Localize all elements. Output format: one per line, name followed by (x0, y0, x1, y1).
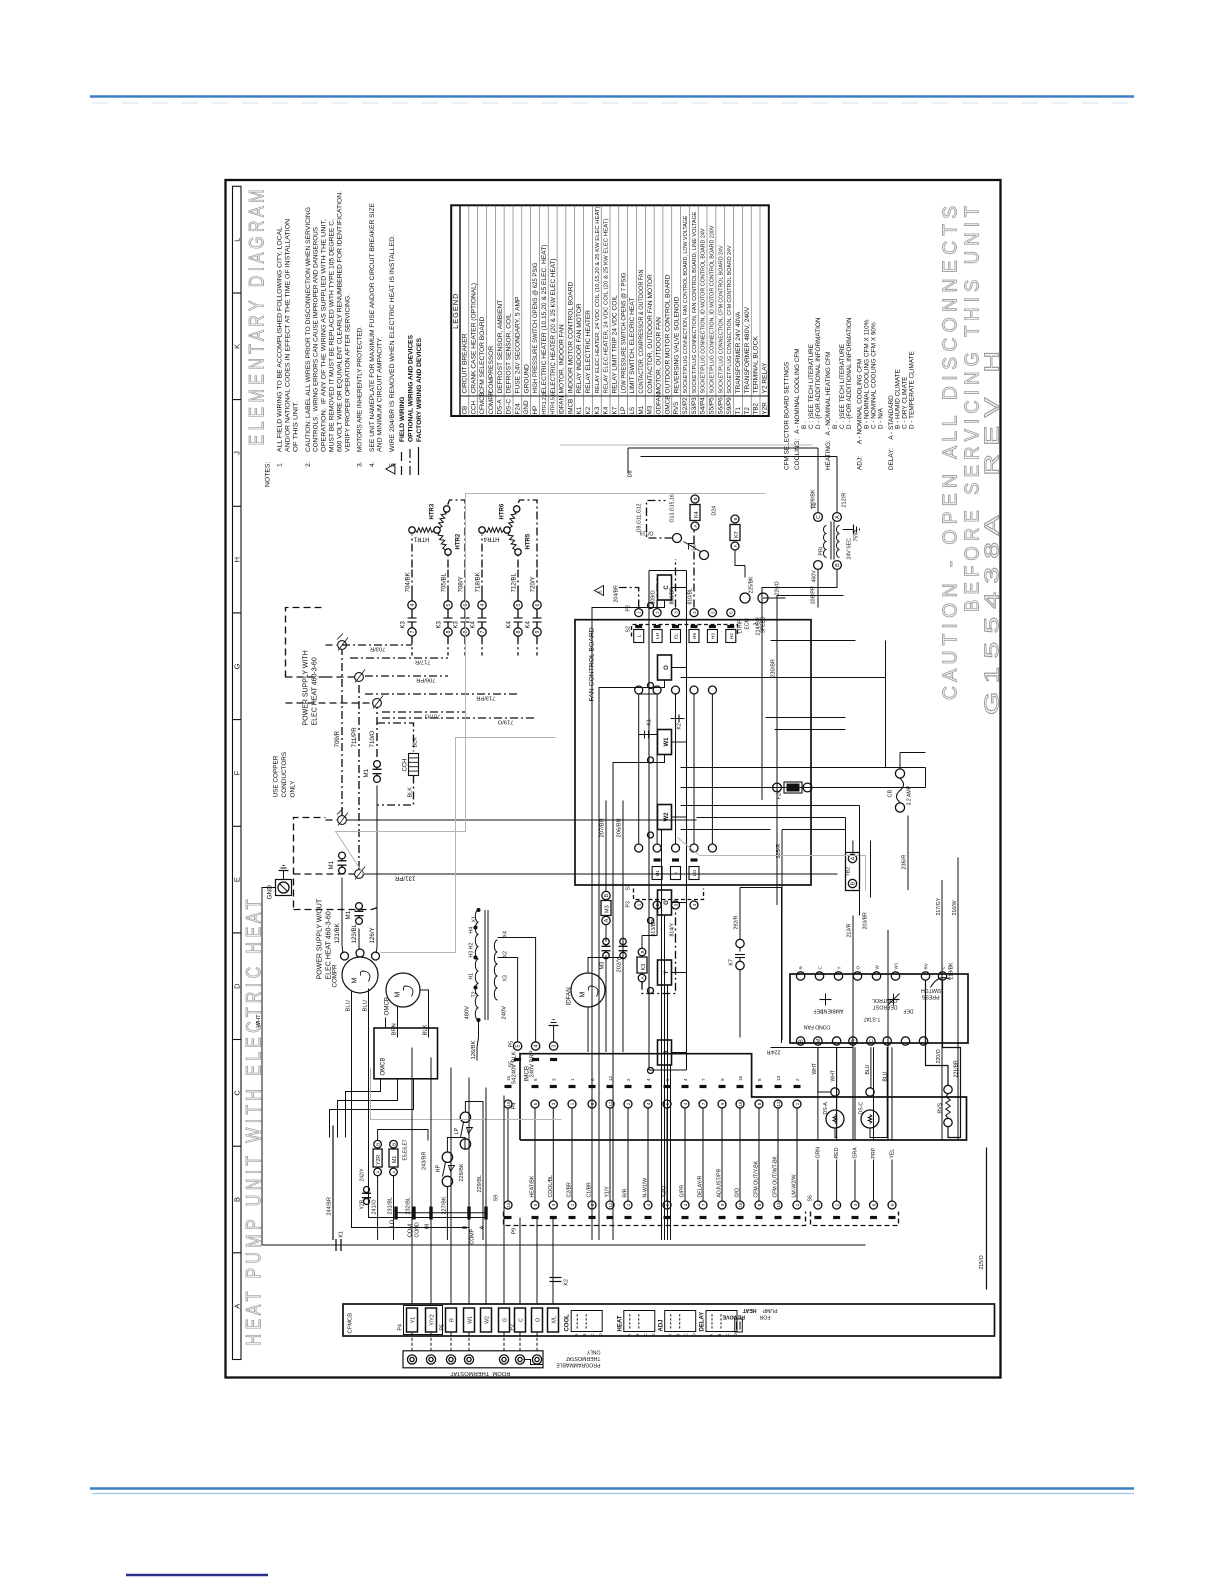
svg-text:813/BR: 813/BR (651, 919, 657, 937)
svg-text:RELAY ELEC.HEATER, 24 VDC COIL: RELAY ELEC.HEATER, 24 VDC COIL (20 & 25 … (604, 218, 610, 393)
svg-text:USE COPPER: USE COPPER (273, 755, 280, 797)
svg-text:DS-A: DS-A (497, 399, 504, 415)
svg-text:SOCKET/PLUG CONNECTION, ID MOT: SOCKET/PLUG CONNECTION, ID MOTOR CONTROL… (701, 228, 707, 393)
svg-text:12: 12 (608, 1202, 613, 1208)
svg-text:ODFAN: ODFAN (656, 392, 663, 414)
fan control board FCB box (575, 620, 811, 885)
svg-text:ELECTRIC HEATER (10,15,20 & 25: ELECTRIC HEATER (10,15,20 & 25 ELEC. HEA… (541, 245, 548, 394)
wire 217/GY long (941, 880, 943, 1140)
svg-text:7: 7 (701, 1203, 706, 1206)
wire 707/O tie (382, 711, 465, 713)
svg-text:BLK: BLK (413, 737, 419, 748)
svg-text:INDOOR MOTOR CONTROL BOARD: INDOOR MOTOR CONTROL BOARD (567, 282, 574, 394)
svg-text:229/BL: 229/BL (477, 1175, 483, 1192)
svg-text:CFM SELECTOR BOARD SETTINGS: CFM SELECTOR BOARD SETTINGS (784, 362, 791, 470)
svg-text:POWER SUPPLY W/OUT: POWER SUPPLY W/OUT (317, 898, 324, 979)
svg-text:230/BR: 230/BR (771, 659, 777, 677)
gray optional wire 5 (381, 738, 556, 953)
wire 240V PRP (498, 938, 536, 1042)
wire from terminal O (599, 680, 665, 1240)
wire 216/W long (957, 858, 959, 1141)
wire 717/R tie (350, 657, 448, 659)
P6 dashed bracket (811, 1212, 899, 1226)
svg-text:D - (FOR ADDITIONAL INFORMATIO: D - (FOR ADDITIONAL INFORMATION (815, 317, 822, 429)
svg-text:IMCB: IMCB (524, 1066, 531, 1081)
svg-text:HEAT/BK: HEAT/BK (530, 1175, 536, 1197)
svg-text:292/R: 292/R (734, 915, 740, 929)
svg-text:E L E M E N T A R Y D I A G: E L E M E N T A R Y D I A G R A M (246, 190, 269, 446)
svg-text:810/BL: 810/BL (688, 588, 694, 605)
svg-text:N-W1/W: N-W1/W (643, 1178, 649, 1198)
svg-text:4: 4 (646, 1203, 651, 1206)
svg-text:P5: P5 (440, 1324, 446, 1330)
svg-text:224/R: 224/R (766, 1049, 780, 1055)
svg-text:OF THIS UNIT.: OF THIS UNIT. (293, 401, 300, 452)
svg-text:B: B (233, 1197, 242, 1202)
indoor fan motor IDFAN (571, 973, 605, 1007)
svg-text:D: D (233, 983, 242, 989)
svg-text:Y1: Y1 (410, 1317, 416, 1323)
svg-text:BLK: BLK (408, 787, 414, 798)
svg-text:1: 1 (637, 903, 642, 906)
wire 243/BR (378, 1130, 428, 1141)
wire 121/BK (341, 878, 343, 946)
wire bus verticals center (681, 829, 771, 831)
svg-text:CCH: CCH (403, 759, 409, 772)
svg-text:1: 1 (570, 1203, 575, 1206)
svg-text:CB: CB (461, 406, 468, 415)
svg-text:123/BL: 123/BL (351, 923, 358, 943)
svg-text:AND MINIMUM CIRCUIT AMPACITY.: AND MINIMUM CIRCUIT AMPACITY. (377, 337, 384, 452)
bottom navy underline (126, 1574, 268, 1576)
second junction phase A (338, 816, 347, 825)
relay contact K2 inside FCB (671, 718, 685, 720)
svg-text:OPTIONAL WIRING AND DEVICES: OPTIONAL WIRING AND DEVICES (408, 334, 415, 442)
svg-text:243/BR: 243/BR (422, 1152, 428, 1170)
svg-text:OMCB: OMCB (381, 1058, 387, 1076)
svg-text:WIRE 204/BR IS REMOVED WHEN EL: WIRE 204/BR IS REMOVED WHEN ELECTRIC HEA… (389, 235, 396, 452)
svg-text:TB2: TB2 (753, 402, 760, 414)
svg-text:4: 4 (683, 1102, 688, 1105)
wires letter strip down (672, 587, 687, 589)
svg-text:814/Y: 814/Y (670, 922, 676, 936)
svg-text:M: M (816, 1039, 822, 1043)
svg-text:B - NOMINAL COOLING CFM X 110%: B - NOMINAL COOLING CFM X 110% (863, 319, 870, 429)
low pressure switch LP (460, 1112, 470, 1122)
terminal HI (429, 1207, 432, 1220)
svg-text:D - N/A: D - N/A (877, 407, 884, 429)
FCB left edge designators (652, 867, 662, 880)
svg-text:LS: LS (629, 407, 636, 415)
svg-text:R/R: R/R (623, 1188, 629, 1197)
terminal O (532, 1308, 543, 1332)
svg-text:K4: K4 (603, 406, 610, 414)
svg-text:HTR5: HTR5 (526, 533, 532, 549)
svg-text:4: 4 (692, 903, 697, 906)
svg-text:A: A (850, 856, 856, 860)
svg-text:I: I (674, 872, 680, 873)
svg-text:220/O: 220/O (936, 1049, 942, 1063)
svg-text:S5/P5: S5/P5 (709, 397, 716, 415)
svg-text:121/BK: 121/BK (334, 922, 341, 943)
svg-text:B: B (693, 497, 698, 500)
svg-text:B E F O R E S E R V I C I N: B E F O R E S E R V I C I N G T H I S U … (962, 206, 984, 612)
svg-text:OMCB: OMCB (664, 396, 671, 415)
svg-text:DS-C: DS-C (859, 1102, 865, 1115)
svg-text:FUSE 24V SECONDARY, 5 AMP: FUSE 24V SECONDARY, 5 AMP (515, 296, 522, 393)
svg-text:HI: HI (425, 1223, 431, 1229)
svg-text:REVERSING VALVE SOLENOID: REVERSING VALVE SOLENOID (673, 296, 680, 393)
terminal B COMP (467, 1207, 470, 1220)
svg-text:202/Y: 202/Y (617, 957, 623, 972)
wire 231/BL (393, 1176, 395, 1240)
svg-text:5: 5 (446, 603, 452, 606)
svg-text:15: 15 (506, 1075, 511, 1081)
svg-text:CONTACTOR, OUTDOOR FAN MOTOR: CONTACTOR, OUTDOOR FAN MOTOR (647, 274, 654, 394)
svg-text:COMP: COMP (470, 1228, 476, 1244)
svg-text:3.2 AMP: 3.2 AMP (907, 785, 913, 805)
svg-text:IDFAN: IDFAN (559, 396, 566, 415)
svg-text:S9/P9: S9/P9 (726, 397, 733, 415)
svg-text:719/O: 719/O (497, 719, 513, 725)
svg-text:NOTES:: NOTES: (265, 462, 272, 487)
svg-text:R: R (449, 1318, 455, 1322)
wire BRN (397, 1007, 399, 1038)
svg-text:WHT: WHT (256, 1014, 262, 1028)
wire bus horizontals center (845, 818, 847, 853)
CFM selector board CFMCB outline (343, 1304, 995, 1336)
relay coil K3 (637, 957, 647, 973)
field wiring entry dashes - with elec heat (286, 608, 326, 678)
terminal R (446, 1308, 457, 1332)
wire 203/BR long (887, 930, 889, 1140)
wire 713/PR tie (365, 693, 518, 695)
svg-text:720/Y: 720/Y (530, 576, 537, 592)
svg-text:4: 4 (534, 1044, 540, 1047)
svg-text:G: G (664, 900, 670, 905)
svg-text:S2: S2 (626, 626, 632, 632)
svg-text:S9: S9 (494, 1195, 500, 1202)
wire 214/BR (762, 570, 837, 801)
svg-text:LO: LO (692, 870, 698, 877)
contactor M1 contact phase C (374, 776, 381, 783)
contactor M3 contacts (603, 952, 609, 958)
svg-text:12: 12 (608, 1101, 613, 1107)
svg-text:CFMCB: CFMCB (348, 1313, 354, 1334)
svg-text:TRANSFORMER 480V, 240V: TRANSFORMER 480V, 240V (744, 306, 751, 393)
svg-text:K3: K3 (594, 406, 601, 414)
svg-text:1: 1 (277, 463, 284, 467)
svg-text:3: 3 (551, 1203, 556, 1206)
gray optional wire 2 (700, 856, 866, 891)
svg-text:COMPR: COMPR (488, 391, 495, 415)
svg-text:CONTROLS. WIRING ERRORS CAN C: CONTROLS. WIRING ERRORS CAN CAUSE IMPROP… (313, 227, 320, 452)
long vertical risers from strip terminals (411, 1239, 413, 1241)
svg-text:K3: K3 (401, 620, 407, 628)
wire 230/BR (777, 596, 844, 906)
DS-A wiring (818, 1047, 831, 1092)
svg-text:CFM SELECTOR BOARD: CFM SELECTOR BOARD (479, 316, 486, 393)
contact K2 capacitor symbol (550, 1281, 562, 1283)
svg-text:K1: K1 (339, 1231, 345, 1237)
svg-text:2: 2 (626, 1102, 631, 1105)
svg-text:13: 13 (776, 1202, 781, 1208)
svg-text:4.: 4. (369, 461, 376, 467)
svg-text:S5: S5 (509, 1061, 515, 1068)
svg-text:808/BR: 808/BR (670, 587, 676, 605)
fuse F24 (787, 784, 799, 791)
defrost board right terminals (796, 972, 804, 980)
wire from terminal G (664, 915, 666, 1240)
svg-text:RV: RV (924, 962, 929, 969)
svg-text:X2: X2 (503, 951, 509, 957)
wire 240V BLK (498, 958, 518, 1042)
defrost board left terminals (796, 1037, 804, 1045)
svg-text:5: 5 (890, 1203, 895, 1206)
svg-text:BLU: BLU (865, 1064, 871, 1074)
outdoor motor control board OMCB box (374, 1028, 438, 1079)
wires from CFMCB terminals rightward (411, 1218, 413, 1241)
svg-text:RELAY LIMIT TRIP 24 VDC COIL: RELAY LIMIT TRIP 24 VDC COIL (612, 295, 619, 394)
svg-text:RELAY ELECTRIC HEATER: RELAY ELECTRIC HEATER (585, 310, 592, 394)
svg-text:C A U T I O N - O P E N: C A U T I O N - O P E N A L L D I S C O … (940, 206, 962, 700)
svg-text:5: 5 (598, 590, 603, 593)
wire 292/R (739, 888, 741, 940)
svg-text:S6: S6 (808, 1195, 814, 1201)
svg-text:Y: Y (837, 966, 842, 969)
svg-text:BLU: BLU (346, 1000, 352, 1011)
svg-text:O: O (535, 1318, 541, 1322)
thermostat terminal Y1 (407, 1355, 416, 1364)
reversing valve solenoid RVS (944, 1085, 952, 1093)
svg-text:RED: RED (834, 1147, 840, 1158)
svg-text:710/O: 710/O (369, 730, 376, 747)
svg-text:LTRIP: LTRIP (738, 619, 744, 633)
wire 712/BL K4 pins 8-5 (517, 636, 519, 655)
terminal box G (658, 890, 672, 915)
wire 108/PR (817, 570, 819, 608)
svg-text:HTR4,5,6: HTR4,5,6 (551, 393, 557, 415)
svg-text:O/O: O/O (735, 1188, 741, 1198)
CFMCB input terminals LO COM HI COMP (396, 1212, 488, 1214)
svg-text:G 1 5 5 4 3 8 A R E V H: G 1 5 5 4 3 8 A R E V H (982, 351, 1004, 715)
svg-text:712/BL: 712/BL (511, 572, 518, 592)
svg-text:216/W: 216/W (952, 900, 958, 915)
svg-text:G/PR: G/PR (680, 1185, 686, 1198)
svg-text:WHT: WHT (831, 1070, 837, 1081)
svg-text:A: A (627, 1334, 632, 1337)
thermostat terminal W1 (464, 1355, 473, 1364)
phase junction node L1 (338, 641, 347, 650)
wire 241/O (377, 1176, 379, 1240)
svg-text:POWER SUPPLY WITH: POWER SUPPLY WITH (303, 650, 310, 725)
legend table (451, 205, 769, 416)
svg-text:W1: W1 (664, 737, 670, 747)
svg-text:4: 4 (692, 611, 697, 614)
svg-text:P9: P9 (512, 1228, 518, 1235)
svg-text:D - TEMPERATE CLIMATE: D - TEMPERATE CLIMATE (909, 351, 916, 429)
svg-text:8: 8 (757, 1078, 762, 1081)
svg-text:6: 6 (871, 1203, 876, 1206)
svg-text:DEFROST SENSOR, COIL: DEFROST SENSOR, COIL (506, 313, 513, 393)
svg-text:D24: D24 (712, 506, 718, 516)
svg-text:S3/P3: S3/P3 (691, 397, 698, 415)
wire 126/Y (376, 805, 378, 948)
svg-text:B: B (391, 1143, 396, 1146)
svg-text:C . )SEE TECH LITERATURE: C . )SEE TECH LITERATURE (839, 344, 846, 429)
wire from terminal W1 (613, 755, 665, 1241)
svg-text:CONTACTOR, COMPRESSOR & OUTDOO: CONTACTOR, COMPRESSOR & OUTDOOR FAN (638, 269, 645, 393)
svg-text:THERMOSTAT: THERMOSTAT (565, 1355, 601, 1361)
svg-text:PUMP: PUMP (762, 1307, 778, 1313)
svg-text:C: C (590, 1333, 595, 1336)
wire 709/R phase A (341, 650, 343, 815)
svg-text:RELAY ELEC.HEATER, 24 VDC COIL: RELAY ELEC.HEATER, 24 VDC COIL (10,15,20… (595, 206, 601, 393)
svg-text:G: G (233, 663, 242, 669)
svg-text:5: 5 (516, 1044, 522, 1047)
svg-text:219/BK: 219/BK (949, 962, 955, 980)
svg-text:2: 2 (626, 1078, 631, 1081)
svg-text:X4: X4 (503, 931, 509, 937)
svg-text:232/BL: 232/BL (406, 1197, 412, 1214)
svg-text:K: K (233, 344, 242, 349)
svg-text:K4: K4 (507, 620, 513, 628)
wire 226/O (763, 597, 786, 599)
svg-text:W1: W1 (894, 962, 899, 969)
svg-text:Y2 RELAY: Y2 RELAY (762, 362, 769, 394)
svg-text:8: 8 (446, 630, 452, 633)
svg-text:WHT: WHT (812, 1063, 818, 1074)
thermostat terminal G (499, 1355, 508, 1364)
svg-text:B: B (850, 881, 856, 885)
svg-text:1: 1 (570, 1078, 575, 1081)
svg-text:C: C (518, 1318, 524, 1322)
svg-text:O: O (856, 966, 861, 970)
svg-text:K4: K4 (526, 620, 532, 628)
svg-text:5: 5 (533, 1203, 538, 1206)
svg-text:GROUND: GROUND (523, 364, 530, 394)
bottom blue rule (90, 1487, 1134, 1490)
svg-text:9: 9 (720, 1203, 725, 1206)
svg-text:131/PR: 131/PR (394, 875, 415, 882)
svg-text:2: 2 (754, 623, 760, 626)
svg-text:809/O: 809/O (651, 590, 657, 604)
svg-text:8: 8 (757, 1203, 762, 1206)
wire 123/BL (358, 929, 360, 942)
svg-text:3.: 3. (357, 461, 364, 467)
indoor motor control board IMCB (520, 1054, 967, 1140)
svg-text:Y2R: Y2R (761, 402, 768, 415)
svg-text:LP: LP (454, 1127, 460, 1134)
svg-text:2: 2 (795, 1102, 800, 1105)
svg-text:MOTORS ARE INHERENTLY PROTECTE: MOTORS ARE INHERENTLY PROTECTED. (357, 326, 364, 452)
svg-text:LP: LP (620, 407, 627, 415)
svg-text:PRI: PRI (819, 547, 825, 556)
svg-text:244/BR: 244/BR (327, 1197, 333, 1215)
svg-text:T2: T2 (472, 991, 478, 997)
svg-text:SOCKET/PLUG CONNECTION, CFM CO: SOCKET/PLUG CONNECTION, CFM CONTROL BOAR… (718, 245, 724, 393)
svg-text:M1: M1 (345, 910, 352, 919)
svg-text:X/L: X/L (551, 1316, 557, 1324)
circuit breaker CB 3.2 AMP (895, 769, 904, 778)
contactor M1 contact phase A (339, 867, 346, 874)
svg-text:W1: W1 (467, 1316, 473, 1324)
terminal Y1 (407, 1308, 418, 1332)
svg-text:B: B (635, 1334, 640, 1337)
svg-text:C: C (233, 1090, 242, 1096)
wire 109/BK (817, 448, 819, 513)
svg-text:K3: K3 (437, 620, 443, 628)
svg-text:C2/BR: C2/BR (567, 1182, 573, 1198)
svg-text:718/BK: 718/BK (475, 571, 482, 592)
svg-text:PRESS: PRESS (921, 994, 939, 1000)
wire to K7 (744, 566, 746, 578)
svg-text:IDFAN: IDFAN (566, 987, 573, 1005)
svg-text:ADJ: ADJ (659, 1319, 665, 1331)
riser wires bottom strip to FCB (411, 1048, 413, 1241)
svg-text:LH: LH (655, 632, 661, 639)
svg-text:126/Y: 126/Y (369, 927, 376, 943)
wire from terminal Y (667, 985, 669, 1240)
svg-text:GRN: GRN (815, 1147, 821, 1159)
transformer T1 24V (814, 513, 823, 522)
svg-text:706/PR: 706/PR (416, 677, 435, 683)
svg-text:TRANSFORMER 24V 40VA: TRANSFORMER 24V 40VA (735, 311, 742, 394)
svg-text:CFMCB: CFMCB (479, 392, 486, 414)
svg-text:G: G (502, 1318, 508, 1322)
svg-text:215/O: 215/O (979, 1255, 985, 1269)
svg-text:9: 9 (720, 1102, 725, 1105)
svg-text:M1: M1 (392, 1156, 398, 1163)
wire 213/R (852, 878, 854, 916)
svg-text:HTR6: HTR6 (500, 503, 506, 519)
svg-text:207/BR: 207/BR (600, 818, 606, 837)
svg-text:2: 2 (835, 1203, 840, 1206)
svg-text:HTR2: HTR2 (456, 533, 462, 549)
svg-text:2: 2 (795, 1078, 800, 1081)
svg-text:M: M (580, 992, 587, 998)
svg-text:EL: EL (674, 633, 680, 639)
svg-text:K1: K1 (576, 406, 583, 414)
svg-text:ELECTRIC HEATER (20 & 25 KW EL: ELECTRIC HEATER (20 & 25 KW ELEC HEAT) (550, 259, 557, 394)
svg-text:4: 4 (410, 603, 416, 606)
svg-text:B: B (835, 563, 841, 567)
wire 224/R (771, 1037, 853, 1048)
svg-text:3: 3 (673, 611, 678, 614)
wire 232/BL (411, 1168, 413, 1241)
svg-text:TB2: TB2 (846, 867, 852, 877)
svg-text:C: C (725, 1333, 730, 1336)
ground lug GND (276, 880, 292, 896)
svg-text:Y/Y2: Y/Y2 (429, 1314, 435, 1325)
wire 229/BL (465, 1102, 483, 1241)
wire 710/O phase C (376, 708, 378, 757)
field wiring entry dashes - w/out elec heat (294, 818, 326, 908)
svg-text:228/BK: 228/BK (459, 1163, 465, 1181)
note 5 triangle flag (386, 464, 395, 474)
svg-text:H9: H9 (692, 633, 698, 639)
wire 244/BR (332, 1126, 334, 1241)
svg-text:HIGH PRESSURE SWITCH OPENS @ 6: HIGH PRESSURE SWITCH OPENS @ 625 PSIG (532, 262, 539, 393)
svg-text:2.: 2. (305, 461, 312, 467)
svg-text:CAUTION: LABEL ALL WIRES PRIOR: CAUTION: LABEL ALL WIRES PRIOR TO DISCON… (305, 207, 312, 452)
svg-text:A: A (709, 1334, 714, 1337)
svg-text:REMOVE: REMOVE (722, 1314, 745, 1320)
heater elements HTR4-HTR6 (481, 535, 483, 568)
svg-text:SOCKET/PLUG CONNECTION, FAN CO: SOCKET/PLUG CONNECTION, FAN CONTROL BOAR… (683, 215, 689, 393)
svg-text:K7: K7 (734, 531, 740, 538)
svg-text:SOCKET/PLUG CONNECTION, CFM CO: SOCKET/PLUG CONNECTION, CFM CONTROL BOAR… (727, 245, 733, 393)
